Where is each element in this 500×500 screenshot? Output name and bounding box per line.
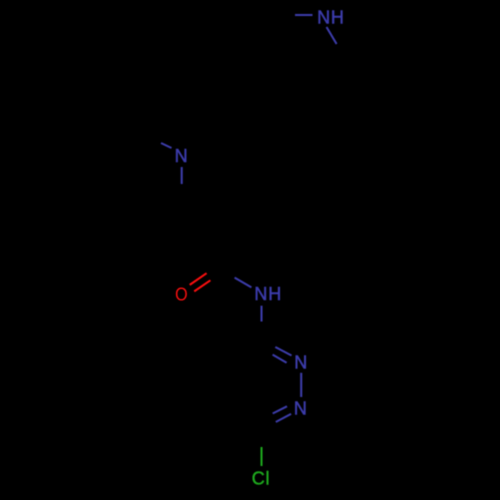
wire ring C1=N2 inner half-line (273, 355, 287, 363)
svg-text:NH: NH (254, 284, 282, 304)
wire amine N-CH2 half-bond (181, 167, 183, 184)
svg-text:N: N (294, 353, 308, 373)
wire piperidine N-C half-bond diagonal (327, 27, 337, 44)
svg-text:N: N (175, 146, 189, 166)
wire carbonyl C=O main half-line (190, 273, 207, 285)
wire carbonyl C=O inner half-line (194, 280, 210, 291)
wire ring N2-N3 bond (300, 373, 302, 397)
svg-text:Cl: Cl (252, 469, 271, 489)
wire C-Cl half-bond (260, 447, 262, 466)
svg-text:NH: NH (317, 8, 345, 28)
wire ring C1=N2 main half-line (275, 347, 291, 356)
svg-text:N: N (294, 399, 308, 419)
svg-text:O: O (175, 283, 188, 304)
wire amine N-CH3 half-bond (161, 143, 172, 148)
wire ring N3=C4 inner half-line (273, 406, 287, 413)
wire piperidine N-C half-bond horizontal (295, 14, 313, 16)
wire NH-ring half-bond (260, 306, 262, 322)
wire ring N3=C4 main half-line (276, 414, 291, 422)
wire amide C-NH half-bond (235, 278, 252, 288)
